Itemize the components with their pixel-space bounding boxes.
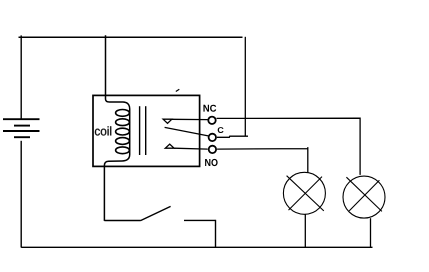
wire coil feed + coil entry/exit + wire to switch <box>104 35 129 221</box>
lamp L1 <box>283 172 325 214</box>
label C <box>218 127 224 133</box>
terminal C <box>209 134 216 141</box>
relay armature <box>165 127 209 135</box>
stray mark <box>176 89 180 91</box>
NC fixed contact triangle <box>163 119 172 123</box>
lamp L2 <box>343 176 385 218</box>
battery B1 <box>3 119 40 137</box>
wire left vertical (top rail to battery) <box>20 35 22 118</box>
label NC <box>203 105 216 112</box>
label coil <box>95 126 111 135</box>
terminal NC <box>208 117 215 124</box>
relay core <box>139 106 141 155</box>
wire C terminal jog <box>217 136 248 137</box>
wire C vertical to top rail <box>244 37 246 136</box>
terminal NO <box>209 146 216 153</box>
wire NO contact line <box>174 147 208 150</box>
wire NC terminal to lamp L2 <box>217 118 361 175</box>
wire bottom rail <box>21 246 372 248</box>
relay K1 box <box>93 95 200 166</box>
wire lamp L2 bottom <box>370 218 372 247</box>
wire battery bottom to bottom rail <box>20 141 22 248</box>
wire top rail <box>19 36 243 38</box>
relay coil loops <box>116 110 130 154</box>
switch S1 <box>104 206 215 247</box>
label NO <box>205 159 218 166</box>
wire NO terminal to lamp L1 <box>217 147 308 173</box>
NO fixed contact triangle <box>165 144 174 148</box>
wire lamp L1 bottom <box>304 214 306 247</box>
wire NC contact line <box>172 118 208 120</box>
